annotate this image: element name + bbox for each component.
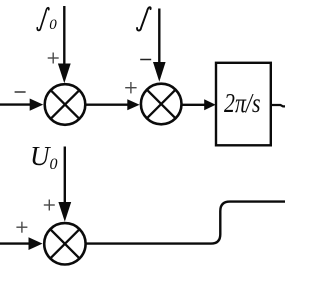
arrowhead into summing junction S3 top <box>58 202 71 222</box>
wire f0 vertical <box>63 6 65 66</box>
wire U0 vertical <box>64 147 66 205</box>
wire f vertical <box>158 9 160 65</box>
arrowhead into summing junction S1 top <box>58 64 71 84</box>
block 2pi/s <box>216 63 271 146</box>
plus sign (U0 input) <box>44 200 55 211</box>
arrowhead into summing junction S2 top <box>153 62 166 82</box>
svg-text:2π/s: 2π/s <box>224 88 261 118</box>
plus sign (S2 left input) <box>125 82 136 93</box>
summing junction S2 <box>141 84 182 125</box>
arrowhead into summing junction S1 left <box>30 99 44 111</box>
wire S3 output with S-curve to upper right <box>87 202 286 244</box>
svg-text:0: 0 <box>49 17 57 33</box>
wire left input top <box>0 103 31 105</box>
plus sign (bottom left input) <box>16 222 27 233</box>
summing junction S3 <box>44 223 85 264</box>
wire block output <box>272 105 285 106</box>
minus sign (left input) <box>15 91 26 93</box>
label f <box>137 7 151 30</box>
arrowhead into summing junction S3 left <box>29 237 43 250</box>
summing junction S1 <box>45 84 86 125</box>
wire left input bottom <box>0 242 30 244</box>
plus sign (f0 input) <box>48 53 59 64</box>
arrowhead into block 2pi/s <box>204 99 216 110</box>
label f0 <box>37 8 49 31</box>
minus sign (f input) <box>140 59 151 61</box>
wire S2 to block <box>182 104 206 106</box>
arrowhead into summing junction S2 left <box>127 99 139 110</box>
wire S1 to S2 <box>85 103 129 105</box>
